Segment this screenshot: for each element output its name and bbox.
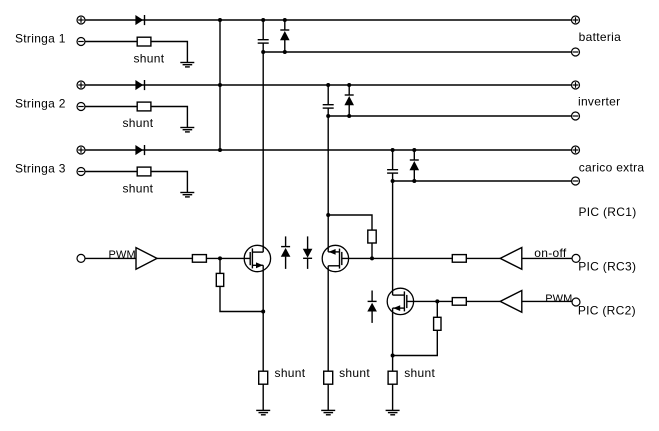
svg-text:PWM: PWM (545, 293, 572, 305)
junction D5 bottom (347, 114, 351, 118)
shunt resistor stringa1 (137, 37, 151, 46)
diode D5 across inverter (344, 85, 354, 116)
wire stringa3 plus rail (85, 149, 572, 151)
svg-text:shunt: shunt (133, 51, 164, 65)
diode D1 stringa1 (135, 15, 144, 25)
junction Q2 drain node (326, 213, 330, 217)
terminal batteria minus (572, 48, 580, 56)
svg-text:on-off: on-off (534, 246, 567, 260)
junction D5 top (347, 83, 351, 87)
resistor R5 PWM series (452, 298, 466, 306)
junction stringa1 bus (218, 18, 222, 22)
shunt resistor stringa3 (137, 167, 151, 176)
terminal inverter minus (572, 112, 580, 120)
junction C1 top (261, 18, 265, 22)
svg-text:PWM: PWM (109, 249, 136, 261)
free diode DF3 (367, 291, 377, 323)
terminal stringa3 minus (77, 168, 85, 176)
svg-text:shunt: shunt (404, 366, 435, 380)
junction Q2 gate node (370, 256, 374, 260)
diode D3 stringa3 (135, 145, 144, 155)
ground column1 (256, 410, 270, 414)
resistor R2 Q1 gate pulldown (216, 273, 223, 286)
wire stringa1 minus to ground (85, 42, 187, 63)
wire Q3 gate run (407, 300, 453, 302)
ground column3 (386, 410, 400, 414)
terminal stringa2 minus (77, 103, 85, 111)
wire resistor R4 to buffer A2 (466, 257, 500, 259)
free diode DF2 (303, 236, 313, 269)
capacitor C1 (258, 40, 269, 43)
junction C3 bottom (391, 179, 395, 183)
shunt resistor stringa2 (137, 102, 151, 111)
capacitor C3 (387, 170, 398, 173)
wire column3 Q3 source to ground (392, 308, 394, 410)
svg-text:PIC (RC1): PIC (RC1) (578, 205, 636, 219)
shunt resistor column2 (324, 371, 333, 384)
svg-text:Stringa 3: Stringa 3 (15, 161, 66, 175)
terminal PIC RC2 (572, 298, 580, 306)
terminal stringa1 minus (77, 38, 85, 46)
wire Q1 gate pulldown to source (220, 258, 263, 311)
svg-text:shunt: shunt (122, 116, 153, 130)
svg-text:PIC (RC3): PIC (RC3) (578, 260, 636, 274)
resistor R1 Q1 gate series (192, 255, 206, 263)
diode D4 across batteria (280, 20, 290, 52)
terminal PWM input (77, 254, 85, 262)
junction D6 bottom (412, 179, 416, 183)
resistor R3 Q2 drain-gate (368, 230, 376, 243)
diode D2 stringa2 (135, 80, 144, 90)
ground stringa3 (180, 193, 194, 197)
junction Q1 gate node (218, 256, 222, 260)
wire stringa2 minus to ground (85, 107, 187, 128)
svg-text:shunt: shunt (339, 366, 370, 380)
terminal carico extra minus (572, 177, 580, 185)
wire column1 bus C1 to Q1 drain (262, 43, 264, 252)
wire Q3 gate pulldown to source (393, 301, 438, 355)
wire column3 bus C3 to Q3 drain (392, 173, 394, 295)
terminal carico extra plus (572, 146, 580, 154)
free diode DF1 (281, 236, 291, 269)
resistor R6 Q3 gate pulldown (434, 317, 441, 330)
wire carico extra minus rail (393, 180, 572, 182)
mosfet Q1 (244, 245, 270, 271)
svg-text:inverter: inverter (578, 94, 620, 108)
junction C1 bottom (261, 50, 265, 54)
terminal batteria plus (572, 16, 580, 24)
junction C2 bottom (326, 114, 330, 118)
junction Q3 gate node (435, 299, 439, 303)
svg-text:shunt: shunt (122, 181, 153, 195)
buffer A2 on-off driver (500, 248, 522, 270)
terminal inverter plus (572, 81, 580, 89)
wire batteria minus rail (263, 51, 571, 53)
wire column1 Q1 source to ground (262, 265, 264, 410)
buffer A1 PWM input driver (136, 248, 157, 270)
junction D4 top (283, 18, 287, 22)
svg-text:Stringa 1: Stringa 1 (15, 31, 66, 45)
wire stringa3 minus to ground (85, 172, 187, 193)
svg-text:batteria: batteria (579, 30, 621, 44)
wire buffer A1 to Q1 gate (157, 257, 250, 259)
shunt resistor column3 (388, 371, 397, 384)
junction D6 top (412, 148, 416, 152)
capacitor C2 (323, 105, 334, 108)
wire resistor R5 to buffer A3 (466, 300, 500, 302)
wire vertical bus joining stringa plus rails (219, 20, 221, 150)
wire buffer A3 to PIC RC2 terminal (522, 300, 572, 302)
buffer A3 PWM driver (500, 291, 522, 313)
ground stringa2 (180, 128, 194, 132)
wire stringa2 plus rail (85, 84, 572, 86)
wire PWM input to buffer A1 (85, 257, 136, 259)
shunt resistor column1 (259, 371, 268, 384)
svg-text:PIC (RC2): PIC (RC2) (578, 304, 636, 318)
junction Q3 source node (391, 354, 395, 358)
svg-text:shunt: shunt (275, 366, 306, 380)
resistor R4 on-off series (452, 255, 466, 263)
wire column3 bus above C3 (392, 150, 394, 170)
terminal stringa2 plus (77, 81, 85, 89)
wire column2 bus C2 to Q2 drain (327, 108, 329, 252)
terminal stringa3 plus (77, 146, 85, 154)
junction stringa2 bus (218, 83, 222, 87)
wire column1 bus above C1 (262, 20, 264, 40)
junction C3 top (391, 148, 395, 152)
wire Q2 drain to gate resistor R3 (328, 215, 372, 258)
junction stringa3 bus (218, 148, 222, 152)
junction Q1 source node (261, 310, 265, 314)
wire column2 Q2 source to ground (327, 266, 329, 411)
terminal PIC RC3 (572, 254, 580, 262)
mosfet Q2 (322, 245, 348, 271)
wire inverter minus rail (328, 115, 571, 117)
wire Q2 gate run (342, 257, 453, 259)
wire column2 bus above C2 (327, 85, 329, 105)
terminal stringa1 plus (77, 16, 85, 24)
ground stringa1 (180, 63, 194, 67)
svg-text:carico extra: carico extra (579, 160, 645, 174)
wire buffer A2 to PIC RC3 terminal (522, 257, 572, 259)
wire stringa1 plus rail (85, 19, 572, 21)
junction D4 bottom (283, 50, 287, 54)
svg-text:Stringa 2: Stringa 2 (15, 96, 66, 110)
junction C2 top (326, 83, 330, 87)
diode D6 across carico extra (410, 150, 420, 181)
mosfet Q3 (387, 288, 413, 314)
ground column2 (321, 410, 335, 414)
